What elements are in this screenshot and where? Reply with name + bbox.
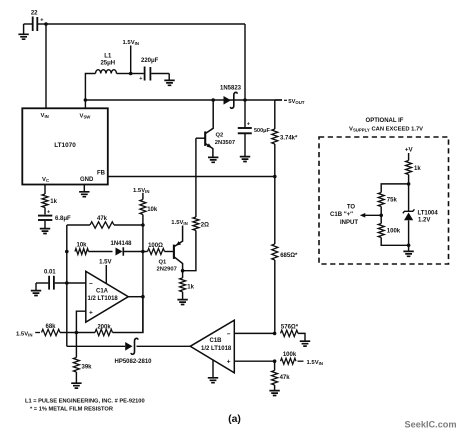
svg-text:100Ω: 100Ω <box>148 243 163 249</box>
resistor 685Ω* <box>272 244 278 260</box>
svg-text:HP5082-2810: HP5082-2810 <box>114 359 152 365</box>
node top-left junction <box>44 22 48 26</box>
svg-text:+V: +V <box>405 147 414 154</box>
svg-text:10k: 10k <box>76 242 87 248</box>
svg-text:220μF: 220μF <box>141 58 159 64</box>
svg-text:C1A: C1A <box>96 288 109 294</box>
resistor 3.74k* <box>274 100 276 129</box>
wire comparator line <box>67 345 125 347</box>
svg-text:1.2V: 1.2V <box>418 218 430 224</box>
svg-text:Q2: Q2 <box>216 133 224 139</box>
inductor L1 25uH <box>85 74 95 101</box>
ground (22 cap) <box>23 24 25 34</box>
ground (Q1 1k) <box>177 300 187 305</box>
transistor Q2 2N3507 <box>204 131 206 146</box>
svg-text:100k: 100k <box>387 229 401 235</box>
svg-text:685Ω*: 685Ω* <box>280 253 298 259</box>
resistor 47k (timing) <box>67 224 90 226</box>
svg-text:2N3507: 2N3507 <box>215 140 235 146</box>
capacitor 22 input bypass <box>24 23 32 25</box>
resistor 39k <box>75 333 77 358</box>
resistor 200k <box>95 329 113 335</box>
resistor 1k (optional) <box>406 161 412 175</box>
wire to C1B + input (arrow) <box>365 214 382 216</box>
svg-text:3.74k*: 3.74k* <box>280 136 298 142</box>
svg-text:+: + <box>227 359 231 366</box>
resistor 10k (vertical) <box>140 200 146 215</box>
resistor 100Ω <box>143 251 148 253</box>
svg-text:+: + <box>89 309 93 316</box>
resistor 68k <box>42 329 60 335</box>
svg-text:+: + <box>139 76 142 82</box>
wire C1A plus input <box>76 311 85 332</box>
node output junction <box>243 98 247 102</box>
wire FB line <box>108 176 275 178</box>
svg-text:47k: 47k <box>97 216 108 222</box>
svg-text:200k: 200k <box>97 324 111 330</box>
svg-text:−: − <box>227 331 231 338</box>
svg-text:576Ω*: 576Ω* <box>281 325 299 331</box>
net 5VOUT label <box>275 99 282 101</box>
box optional (dashed) <box>319 137 449 264</box>
node 47k junction <box>141 223 145 227</box>
wire V_IN drop <box>45 24 47 108</box>
wire left vertical <box>66 225 68 346</box>
svg-text:SeekIC.com: SeekIC.com <box>405 420 457 430</box>
svg-text:22: 22 <box>31 11 38 17</box>
node diode anode junction <box>211 98 215 102</box>
svg-text:VIN: VIN <box>41 113 49 119</box>
ground (6.8uF) <box>40 229 50 234</box>
svg-text:68k: 68k <box>45 324 56 330</box>
svg-text:1.5V: 1.5V <box>99 260 111 266</box>
svg-text:47k: 47k <box>280 375 291 381</box>
node C1B minus junction <box>273 332 277 336</box>
node 10k line left junction <box>65 250 69 254</box>
svg-text:2Ω: 2Ω <box>201 223 209 229</box>
svg-text:500μF: 500μF <box>254 128 271 134</box>
svg-text:1.5VIN: 1.5VIN <box>307 360 323 366</box>
resistor 1k (VC) <box>44 185 46 195</box>
svg-text:1N5823: 1N5823 <box>220 86 242 92</box>
wire V_SW pin up <box>84 100 86 108</box>
svg-text:LT1004: LT1004 <box>418 210 439 216</box>
svg-text:1.5VIN: 1.5VIN <box>16 331 32 337</box>
node L1 / 220uF junction <box>129 72 133 76</box>
wire C1B minus input <box>234 332 274 334</box>
svg-text:+: + <box>247 122 250 128</box>
svg-text:OPTIONAL IF: OPTIONAL IF <box>366 118 404 124</box>
ground (220uF) <box>168 74 170 81</box>
svg-text:Q1: Q1 <box>159 260 168 266</box>
svg-text:1/2 LT1018: 1/2 LT1018 <box>88 296 119 302</box>
svg-text:C1B: C1B <box>210 338 223 344</box>
svg-text:LT1070: LT1070 <box>54 142 76 149</box>
capacitor 220uF <box>131 73 144 75</box>
svg-text:−: − <box>89 280 93 287</box>
wire optional top link <box>381 184 408 193</box>
node C1A output junction <box>141 295 145 299</box>
node optional mid junction <box>379 214 383 218</box>
wire C1A output <box>128 296 143 298</box>
capacitor 500uF output <box>244 100 246 127</box>
svg-text:1.5VIN: 1.5VIN <box>123 40 139 46</box>
resistor 2Ω <box>195 138 197 217</box>
svg-text:GND: GND <box>80 177 94 183</box>
resistor 75k <box>378 193 384 207</box>
transistor Q1 2N2907 <box>173 245 175 259</box>
node optional top junction <box>407 182 411 186</box>
node 0.01 junction <box>65 281 69 285</box>
svg-text:(a): (a) <box>228 413 241 425</box>
op-amp C1B 1/2 LT1018 <box>190 320 234 373</box>
svg-text:C1B ″+″: C1B ″+″ <box>330 212 353 218</box>
wire 685 vertical <box>274 177 276 245</box>
svg-text:TO: TO <box>347 204 356 210</box>
node FB / divider junction <box>273 175 277 179</box>
ground (0.01 cap) <box>35 283 37 291</box>
svg-text:+: + <box>47 210 50 216</box>
wire C1B plus input <box>234 360 274 362</box>
svg-text:* = 1% METAL FILM RESISTOR: * = 1% METAL FILM RESISTOR <box>30 407 113 413</box>
svg-text:L1 = PULSE ENGINEERING, INC.: L1 = PULSE ENGINEERING, INC. # PE-92100 <box>25 399 145 405</box>
ground (Q2 emitter) <box>208 157 218 162</box>
IC U1 LT1070 <box>22 108 108 184</box>
svg-text:1N4148: 1N4148 <box>110 241 132 247</box>
svg-text:39k: 39k <box>82 365 93 371</box>
svg-text:75k: 75k <box>387 198 398 204</box>
resistor 100k (C1B) <box>281 358 296 364</box>
svg-text:10k: 10k <box>147 207 158 213</box>
svg-text:1k: 1k <box>187 284 194 290</box>
svg-text:VSUPPLY: VSUPPLY <box>349 127 370 133</box>
svg-text:100k: 100k <box>283 352 297 358</box>
svg-text:1/2 LT1018: 1/2 LT1018 <box>201 346 232 352</box>
svg-text:1k: 1k <box>50 199 57 205</box>
op-amp C1A 1/2 LT1018 <box>86 271 129 322</box>
capacitor 0.01 <box>36 282 48 284</box>
ground (47k) <box>269 391 279 396</box>
node C1B plus junction <box>273 359 277 363</box>
svg-text:1.5VIN: 1.5VIN <box>133 188 149 194</box>
svg-text:25μH: 25μH <box>100 61 115 67</box>
svg-text:6.8μF: 6.8μF <box>55 216 71 222</box>
wire switch line <box>85 99 282 101</box>
svg-text:2N2907: 2N2907 <box>157 267 177 273</box>
svg-text:CAN EXCEED 1.7V: CAN EXCEED 1.7V <box>372 127 424 133</box>
node plus-input junction <box>75 331 79 335</box>
svg-text:VC: VC <box>42 177 49 183</box>
svg-text:1k: 1k <box>414 166 421 172</box>
ground (576) <box>300 341 310 346</box>
ground (39k) <box>71 383 81 388</box>
ground (LT1070 GND pin) <box>83 185 85 192</box>
resistor 47k (C1B) <box>274 361 276 370</box>
node 1N4148 junction <box>141 250 145 254</box>
resistor 10k (feedback) <box>75 249 89 255</box>
svg-text:L1: L1 <box>104 54 112 60</box>
node optional bottom junction <box>407 244 411 248</box>
svg-text:5VOUT: 5VOUT <box>288 99 305 105</box>
svg-text:+: + <box>40 18 43 24</box>
wire mid vertical <box>142 215 144 333</box>
svg-text:FB: FB <box>97 171 106 177</box>
wire top rail <box>46 23 245 25</box>
ground (LT1004) <box>408 245 410 251</box>
node Q1 collector junction <box>181 269 185 273</box>
diode D3 HP5082-2810 <box>125 342 132 351</box>
resistor 1k (Q1) <box>182 271 184 278</box>
svg-text:VSW: VSW <box>80 114 92 120</box>
resistor 100k (optional) <box>380 215 382 223</box>
ground (C1B) <box>212 360 214 378</box>
node V_SW junction <box>84 98 88 102</box>
resistor 576Ω* <box>281 330 299 336</box>
wire top rail drop to output <box>244 24 246 101</box>
ground (500uF) <box>240 157 250 162</box>
svg-text:1.5VIN: 1.5VIN <box>171 220 187 226</box>
svg-text:0.01: 0.01 <box>44 269 56 275</box>
svg-text:INPUT: INPUT <box>340 220 358 226</box>
diode LT1004 1.2V reference <box>408 184 410 211</box>
